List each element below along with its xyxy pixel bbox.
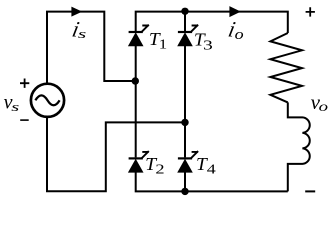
wire T3 leads: [184, 11, 186, 157]
node B (T3-T4 junction): [181, 119, 188, 126]
wire bottom rail: [136, 172, 288, 191]
inductor L (load): [288, 102, 310, 191]
wire source top loop: [47, 12, 132, 83]
minus sign (source): [20, 119, 29, 121]
svg-text:2: 2: [155, 161, 164, 176]
wire source bottom loop: [47, 118, 182, 191]
node top rail (T3 junction): [181, 8, 188, 15]
wire T2 upper lead: [135, 81, 137, 157]
svg-text:s: s: [78, 27, 87, 41]
svg-text:o: o: [319, 100, 328, 115]
plus sign (source): [20, 79, 29, 88]
resistor R (load): [270, 33, 302, 102]
minus sign (load): [305, 190, 315, 192]
arrow io: [229, 6, 240, 17]
node bottom rail (T4 junction): [181, 188, 188, 195]
thyristor T3: [177, 25, 198, 47]
svg-text:o: o: [235, 27, 244, 43]
svg-text:3: 3: [203, 37, 213, 52]
svg-text:1: 1: [159, 36, 167, 51]
AC source VS: [20, 79, 64, 121]
plus sign (load): [306, 7, 315, 16]
node A (T1-T2 junction): [132, 77, 139, 84]
wire T4 lower lead: [184, 172, 186, 191]
thyristor T1: [128, 25, 149, 47]
thyristor T2: [128, 151, 149, 173]
arrow is: [71, 7, 82, 17]
svg-text:4: 4: [207, 161, 216, 176]
svg-text:s: s: [11, 100, 19, 114]
wire top rail: [136, 12, 288, 33]
wire T1 lower lead: [135, 46, 137, 81]
thyristor T4: [177, 151, 198, 173]
